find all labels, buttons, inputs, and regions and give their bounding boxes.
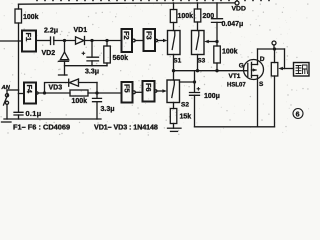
wire drain top bus [258, 48, 285, 50]
svg-text:VD1– VD3 : 1N4148: VD1– VD3 : 1N4148 [94, 122, 158, 131]
svg-text:VD1: VD1 [74, 27, 88, 34]
wire source [257, 76, 259, 127]
svg-text:100k: 100k [222, 49, 238, 56]
wire top rail VDD [19, 3, 236, 4]
switch S3 analog [192, 31, 205, 55]
wire S2 output right [180, 81, 195, 83]
svg-text:2.2μ: 2.2μ [44, 27, 58, 34]
capacitor C2 2.2u [51, 37, 54, 45]
wire AN branch [7, 89, 19, 91]
wire F1 out [36, 40, 50, 42]
wire left column x18.5 [18, 4, 20, 9]
wire F4 input stub [19, 93, 25, 95]
wire S3 output down [197, 55, 199, 71]
op-amp F6 inverter [143, 81, 155, 102]
svg-text:F6: F6 [144, 83, 153, 92]
svg-text:0.047μ: 0.047μ [222, 21, 244, 28]
svg-text:100k: 100k [178, 13, 194, 20]
svg-text:6: 6 [296, 111, 300, 118]
svg-text:+: + [82, 51, 86, 58]
wire amp branch [284, 49, 286, 69]
wire mid rail [65, 65, 108, 67]
ground bar under VD2 [59, 74, 68, 76]
svg-text:VT1: VT1 [229, 73, 241, 80]
svg-text:S3: S3 [197, 57, 205, 64]
svg-text:F3: F3 [145, 31, 154, 40]
label figure number 6 [293, 109, 303, 119]
wire left column continues [18, 41, 20, 90]
svg-text:S: S [259, 81, 264, 88]
svg-text:S1: S1 [173, 57, 181, 64]
wire F4 out [38, 92, 70, 94]
svg-text:F1: F1 [24, 33, 33, 42]
resistor R4 200 [197, 3, 199, 9]
node VDD terminal [235, 1, 239, 5]
svg-text:100μ: 100μ [204, 93, 220, 100]
wire node A [54, 40, 75, 42]
resistor R3 100k top [173, 3, 175, 10]
diode VD3 branch [45, 83, 69, 94]
svg-text:560k: 560k [113, 55, 129, 62]
ground right rail [195, 126, 275, 128]
op-amp F3 inverter [144, 29, 156, 51]
ground left rail [4, 118, 101, 120]
svg-text:F5: F5 [122, 84, 131, 93]
svg-text:3.3μ: 3.3μ [85, 68, 99, 75]
scan artifact dotted top edge [36, 0, 270, 1]
svg-text:15k: 15k [180, 114, 192, 121]
wire S3 control arrow [208, 41, 217, 43]
capacitor C5 0.047u [216, 3, 218, 19]
wire drain [257, 49, 259, 65]
op-amp F2 inverter [122, 29, 133, 52]
op-amp F4 inverter [24, 83, 36, 104]
svg-text:AN: AN [1, 85, 11, 91]
wire F1 input from left edge [0, 40, 22, 42]
ground 15k [168, 127, 182, 129]
svg-text:F4: F4 [25, 85, 34, 95]
resistor R5 100k mid [216, 42, 218, 47]
svg-text:3.3μ: 3.3μ [101, 106, 115, 113]
resistor R1 100k [15, 9, 22, 23]
svg-text:VD2: VD2 [42, 50, 56, 57]
wire S1 down through node to S2 [173, 55, 175, 81]
wire F3 to S1 arrow [158, 40, 165, 42]
wire F6 to S2 arrow [157, 90, 163, 92]
svg-text:HSL07: HSL07 [227, 82, 246, 88]
svg-text:+: + [197, 86, 201, 93]
svg-text:F2: F2 [122, 31, 131, 40]
op-amp F5 inverter [122, 82, 133, 103]
capacitor C4 0.1u [14, 112, 23, 115]
capacitor C6 3.3u [96, 93, 98, 98]
node supply terminal [272, 41, 276, 45]
capacitor C3 3.3u electrolytic [91, 41, 93, 58]
svg-text:F1– F6 : CD4069: F1– F6 : CD4069 [13, 122, 70, 131]
svg-text:100k: 100k [23, 14, 39, 21]
resistor R8 drain [274, 49, 276, 63]
capacitor C7 100u electrolytic [194, 71, 196, 93]
wire F2-F3 [135, 40, 143, 42]
resistor R7 15k [173, 103, 175, 109]
resistor R6 100k horizontal [70, 90, 88, 96]
svg-text:VDD: VDD [232, 5, 246, 12]
resistor R2 560k [106, 41, 108, 47]
svg-text:0.1μ: 0.1μ [26, 109, 42, 118]
switch S1 analog [168, 31, 181, 55]
svg-text:100k: 100k [72, 98, 88, 105]
box power amplifier 功放 [294, 63, 310, 77]
op-amp F1 inverter [22, 31, 36, 52]
wire gate bus [174, 70, 248, 72]
switch S2 analog [167, 80, 180, 103]
